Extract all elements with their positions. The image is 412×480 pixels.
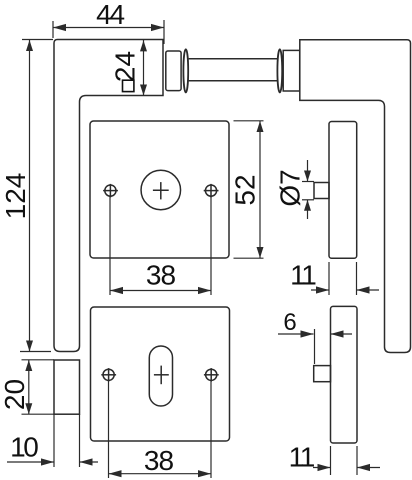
svg-text:38: 38 — [144, 445, 174, 476]
svg-text:11: 11 — [289, 442, 315, 473]
svg-text:24: 24 — [110, 51, 141, 82]
svg-text:6: 6 — [283, 309, 296, 336]
svg-text:124: 124 — [0, 173, 31, 220]
svg-text:11: 11 — [290, 260, 316, 291]
svg-text:38: 38 — [146, 260, 176, 291]
svg-text:20: 20 — [0, 379, 30, 410]
svg-text:52: 52 — [230, 174, 261, 205]
svg-text:Ø7: Ø7 — [275, 169, 306, 206]
svg-text:44: 44 — [96, 0, 124, 30]
svg-text:10: 10 — [10, 432, 38, 463]
